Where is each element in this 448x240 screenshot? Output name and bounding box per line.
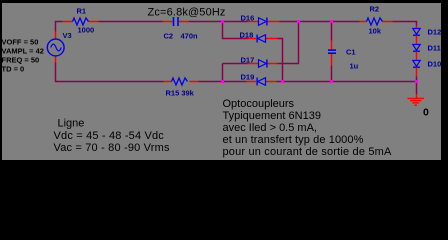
svg-text:470n: 470n xyxy=(181,32,199,41)
svg-text:0: 0 xyxy=(423,106,429,118)
C1 top junction dot xyxy=(330,20,333,23)
svg-text:V3: V3 xyxy=(63,31,72,40)
diode D10 xyxy=(413,60,441,77)
svg-text:avec Iled > 0.5 mA,: avec Iled > 0.5 mA, xyxy=(223,122,317,134)
svg-text:R15 39k: R15 39k xyxy=(166,89,195,98)
svg-text:TD = 0: TD = 0 xyxy=(2,65,25,74)
node B junction dot xyxy=(221,80,224,83)
wire source bottom to R15 xyxy=(56,63,164,82)
svg-text:R2: R2 xyxy=(370,5,380,14)
svg-text:Vdc = 45 - 48 -54 Vdc: Vdc = 45 - 48 -54 Vdc xyxy=(54,130,165,142)
wire ground stub xyxy=(416,82,418,95)
diode D16 xyxy=(241,14,280,26)
voltage source V3 xyxy=(47,31,71,63)
svg-text:et un transfert typ de 1000%: et un transfert typ de 1000% xyxy=(223,134,364,146)
resistor R1 xyxy=(63,7,99,35)
diode D11 xyxy=(413,44,441,61)
node A junction dot xyxy=(221,20,224,23)
svg-text:C2: C2 xyxy=(164,32,174,41)
wire C2 to node A xyxy=(189,21,223,23)
svg-text:D12: D12 xyxy=(428,28,442,37)
minus rail junction dot xyxy=(281,80,284,83)
wire D18 to minus vertical xyxy=(278,39,283,82)
diode D19 xyxy=(241,73,277,86)
wire minus rail to C1 bottom xyxy=(283,81,332,83)
node plus junction dot xyxy=(297,20,300,23)
svg-text:1000: 1000 xyxy=(78,26,95,35)
wire node B to D17 anode xyxy=(223,63,248,65)
diode D17 xyxy=(241,56,278,68)
ground xyxy=(408,94,430,118)
svg-text:D18: D18 xyxy=(240,31,254,40)
wire C1 top maroon xyxy=(331,22,333,41)
wire zener column bottom xyxy=(416,77,418,82)
wire top-left from source to R1 xyxy=(56,22,63,32)
ground junction dot xyxy=(415,80,418,83)
wire C1 bottom to ground node xyxy=(332,81,417,83)
svg-text:Typiquement 6N139: Typiquement 6N139 xyxy=(223,110,321,122)
svg-text:R1: R1 xyxy=(77,7,87,16)
wire node A to D16 xyxy=(223,21,248,23)
wire C1 top to R2 xyxy=(332,21,360,23)
resistor R15 xyxy=(164,78,199,98)
wire R15 to node B xyxy=(199,81,223,83)
svg-text:1u: 1u xyxy=(350,62,359,71)
svg-text:VAMPL = 42: VAMPL = 42 xyxy=(2,47,44,56)
diode D12 xyxy=(413,26,441,45)
svg-text:FREQ = 50: FREQ = 50 xyxy=(2,56,40,65)
svg-text:D11: D11 xyxy=(428,44,441,53)
wire node B to D19 xyxy=(223,81,247,83)
svg-text:D17: D17 xyxy=(241,56,255,65)
wire node B vertical xyxy=(222,64,224,82)
wire R1 to C2 xyxy=(99,21,163,23)
wire D16 to node plus xyxy=(280,21,299,23)
svg-text:pour un courant de sortie de 5: pour un courant de sortie de 5mA xyxy=(223,146,393,158)
svg-text:D19: D19 xyxy=(241,73,255,82)
wire node plus to C1 top xyxy=(299,21,332,23)
svg-text:VOFF = 50: VOFF = 50 xyxy=(2,38,39,47)
capacitor C1 xyxy=(328,41,359,71)
capacitor C2 xyxy=(163,17,199,41)
resistor R2 xyxy=(360,5,393,36)
wire C1 bottom maroon xyxy=(331,66,333,82)
svg-text:C1: C1 xyxy=(346,48,356,57)
svg-text:10k: 10k xyxy=(369,27,382,36)
wire node A down to D18 row xyxy=(223,22,248,39)
wire plus vertical to D17 cathode xyxy=(278,22,299,64)
svg-text:Zc=6.8k@50Hz: Zc=6.8k@50Hz xyxy=(148,7,226,19)
svg-text:D16: D16 xyxy=(241,14,255,23)
svg-text:Optocoupleurs: Optocoupleurs xyxy=(223,98,295,110)
diode D18 xyxy=(240,31,278,43)
svg-text:Vac = 70 - 80 -90 Vrms: Vac = 70 - 80 -90 Vrms xyxy=(54,142,170,154)
C1 bottom junction dot xyxy=(330,80,333,83)
border frame xyxy=(0,0,448,168)
svg-text:Ligne: Ligne xyxy=(58,118,85,130)
svg-text:D10: D10 xyxy=(428,60,442,69)
wire R2 to zener column xyxy=(393,22,417,26)
wire D19 to minus rail xyxy=(277,81,283,83)
